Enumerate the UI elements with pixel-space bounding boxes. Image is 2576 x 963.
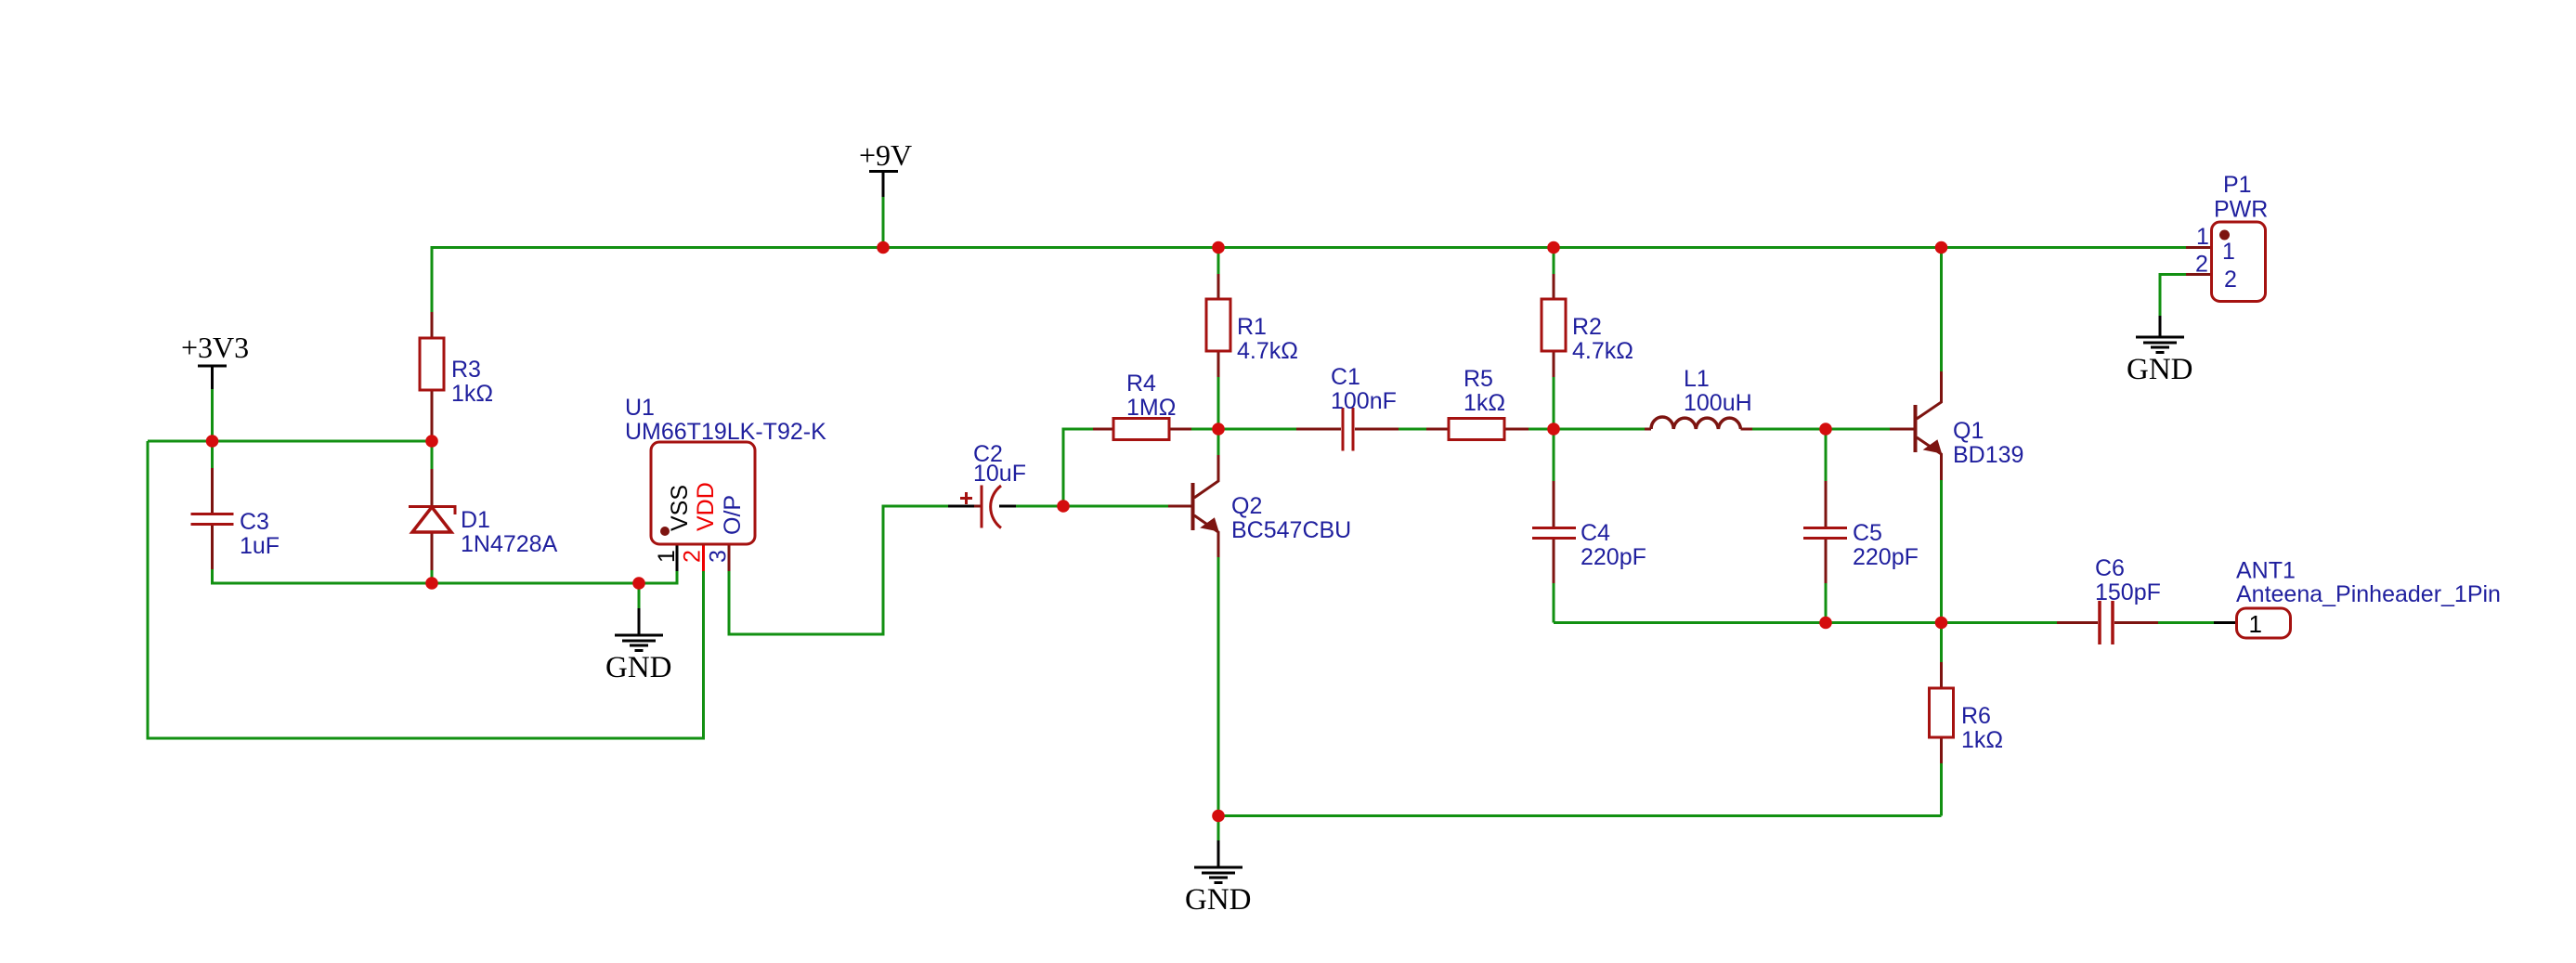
svg-text:GND: GND: [2127, 353, 2193, 386]
svg-text:150pF: 150pF: [2095, 579, 2161, 605]
node R1/R4 junction: [1212, 423, 1225, 436]
svg-text:Anteena_Pinheader_1Pin: Anteena_Pinheader_1Pin: [2236, 581, 2501, 607]
svg-text:R5: R5: [1464, 366, 1493, 392]
transistor Q2: [1168, 455, 1351, 557]
node R3 bottom junction: [425, 435, 438, 448]
capacitor C4: [1532, 481, 1646, 583]
svg-text:GND: GND: [605, 651, 672, 684]
wire D1 top: [431, 441, 434, 469]
svg-text:D1: D1: [461, 507, 490, 533]
svg-text:1: 1: [654, 550, 680, 563]
svg-text:10uF: 10uF: [973, 461, 1026, 487]
IC U1: [625, 395, 826, 571]
svg-text:C1: C1: [1331, 364, 1360, 390]
svg-text:1kΩ: 1kΩ: [1961, 727, 2003, 753]
wire node to L1: [1554, 428, 1645, 431]
svg-text:Q1: Q1: [1953, 418, 1984, 444]
svg-text:1kΩ: 1kΩ: [1464, 390, 1505, 416]
svg-text:Q2: Q2: [1231, 493, 1262, 519]
wire R1 top: [1217, 248, 1220, 275]
wire C5 top: [1825, 429, 1828, 481]
svg-text:O/P: O/P: [720, 495, 746, 535]
svg-text:R4: R4: [1126, 371, 1156, 397]
node Q2 base junction: [1057, 500, 1070, 513]
svg-text:220pF: 220pF: [1853, 544, 1919, 570]
wire bottom GND rail: [1218, 814, 1942, 817]
svg-text:+9V: +9V: [859, 138, 912, 172]
svg-text:100uH: 100uH: [1684, 390, 1752, 416]
node L1/C5 junction: [1819, 423, 1832, 436]
diode D1 (zener): [409, 469, 558, 570]
capacitor C3: [191, 468, 280, 569]
wire C2 to Q2 base: [1016, 505, 1168, 508]
node C5 bottom junction: [1819, 617, 1832, 630]
svg-text:3: 3: [706, 550, 732, 563]
wire C3 top: [211, 441, 214, 468]
wire C5 bottom: [1825, 583, 1828, 623]
power +3V3: [181, 331, 249, 389]
wire +9V stub: [882, 197, 885, 248]
svg-text:4.7kΩ: 4.7kΩ: [1572, 338, 1633, 364]
resistor R6: [1930, 662, 2004, 763]
svg-text:1: 1: [2222, 239, 2235, 265]
ground GND (P1): [2127, 316, 2193, 386]
wire Q1 collector: [1940, 248, 1943, 372]
svg-text:BC547CBU: BC547CBU: [1231, 517, 1351, 543]
wire C1 to R5: [1399, 428, 1426, 431]
wire VDD loop: [148, 441, 704, 738]
capacitor C6: [2057, 555, 2161, 644]
connector ANT1: [2214, 558, 2501, 639]
node GND U1 junction: [632, 577, 645, 590]
svg-text:1: 1: [2249, 610, 2262, 638]
capacitor C2 (polarized): [948, 441, 1026, 528]
svg-text:4.7kΩ: 4.7kΩ: [1237, 338, 1298, 364]
wire R2 top: [1553, 248, 1555, 275]
svg-text:P1: P1: [2223, 172, 2252, 198]
wire top +9V rail: [432, 248, 2186, 313]
svg-text:2: 2: [680, 550, 706, 563]
resistor R5: [1426, 366, 1529, 440]
wire L1 to node: [1752, 428, 1826, 431]
svg-text:PWR: PWR: [2214, 197, 2268, 223]
svg-text:U1: U1: [625, 395, 655, 421]
capacitor C5: [1803, 481, 1919, 583]
ground GND (center): [1185, 840, 1252, 917]
svg-text:VDD: VDD: [693, 482, 719, 531]
svg-text:C5: C5: [1853, 520, 1882, 546]
power +9V: [859, 138, 912, 197]
node R2 top junction: [1547, 241, 1560, 254]
wire R4 riser: [1063, 429, 1093, 506]
svg-text:R2: R2: [1572, 314, 1602, 340]
inductor L1: [1645, 366, 1752, 429]
wire O/P net: [729, 506, 948, 634]
wire +3V3 stub: [211, 389, 214, 441]
svg-text:R3: R3: [451, 357, 481, 383]
svg-text:2: 2: [2195, 252, 2208, 278]
wire C3 bottom to VSS rail: [213, 569, 678, 583]
wire Q1 emitter down: [1940, 480, 1943, 623]
node R1 top junction: [1212, 241, 1225, 254]
wire R6 bottom: [1940, 763, 1943, 816]
wire Q2 emitter down: [1217, 557, 1220, 816]
resistor R2: [1542, 274, 1633, 377]
svg-text:+3V3: +3V3: [181, 331, 249, 364]
wire P1 pin2 to GND: [2160, 275, 2186, 317]
svg-text:220pF: 220pF: [1581, 544, 1646, 570]
svg-text:1uF: 1uF: [240, 533, 280, 559]
wire antenna line: [1554, 621, 2057, 624]
wire C4 top: [1553, 429, 1555, 481]
resistor R1: [1206, 274, 1298, 377]
node R2/R5 junction: [1547, 423, 1560, 436]
svg-text:R1: R1: [1237, 314, 1267, 340]
wire D1 bottom: [431, 570, 434, 583]
wire Q2 collector: [1217, 429, 1220, 455]
svg-text:1: 1: [2196, 224, 2209, 250]
svg-text:C4: C4: [1581, 520, 1610, 546]
node D1 bottom junction: [425, 577, 438, 590]
svg-text:1N4728A: 1N4728A: [461, 531, 558, 557]
wire +3V3 rail: [148, 440, 432, 443]
svg-text:100nF: 100nF: [1331, 388, 1397, 414]
capacitor C1: [1296, 364, 1399, 451]
ground GND (U1): [605, 608, 672, 684]
svg-text:C6: C6: [2095, 555, 2125, 581]
resistor R4: [1093, 371, 1191, 440]
wire node to Q1 base: [1826, 428, 1890, 431]
node +3V3 junction: [206, 435, 219, 448]
wire R6 top: [1940, 623, 1943, 663]
wire GND center tap: [1217, 816, 1220, 841]
svg-text:VSS: VSS: [667, 485, 693, 531]
wire R2 bottom: [1553, 377, 1555, 429]
svg-text:L1: L1: [1684, 366, 1710, 392]
transistor Q1: [1890, 371, 2023, 480]
wire R4 to node: [1191, 428, 1218, 431]
svg-text:1kΩ: 1kΩ: [451, 381, 493, 407]
svg-text:2: 2: [2224, 267, 2237, 293]
svg-text:ANT1: ANT1: [2236, 558, 2296, 584]
connector P1: [2186, 172, 2268, 302]
wire R5 to node: [1529, 428, 1554, 431]
node Q1 collector junction: [1935, 241, 1948, 254]
svg-text:R6: R6: [1961, 703, 1991, 729]
svg-text:GND: GND: [1185, 883, 1252, 917]
svg-text:C3: C3: [240, 509, 269, 535]
wire node to C1: [1218, 428, 1296, 431]
node Q1 emitter junction: [1935, 617, 1948, 630]
wire GND tap U1: [638, 583, 641, 608]
svg-text:UM66T19LK-T92-K: UM66T19LK-T92-K: [625, 419, 826, 445]
svg-text:1MΩ: 1MΩ: [1126, 395, 1176, 421]
resistor R3: [420, 312, 493, 441]
svg-text:BD139: BD139: [1953, 442, 2023, 468]
wire R1 bottom: [1217, 377, 1220, 429]
node +9V junction: [877, 241, 890, 254]
wire C4 bottom: [1553, 583, 1555, 623]
node GND center junction: [1212, 810, 1225, 823]
wire C6 to ANT1: [2158, 621, 2214, 624]
